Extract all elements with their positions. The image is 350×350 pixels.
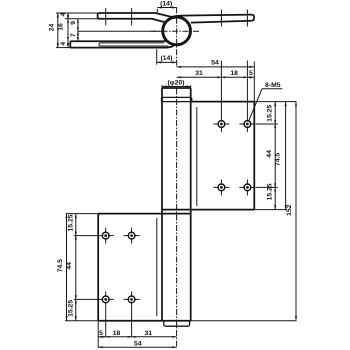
svg-text:(14): (14) <box>160 55 172 62</box>
lower plate outline <box>98 214 191 321</box>
extension line lower plate bottom edge (y=320.8) across <box>65 320 98 322</box>
dimension (14) bottom <box>157 49 177 64</box>
svg-text:5: 5 <box>99 330 103 337</box>
dimension 24 <box>49 13 98 48</box>
dimension 74.5 (right) <box>274 102 286 210</box>
dimension chain 9 / 7 <box>70 19 79 42</box>
barrel top cap ring <box>161 97 191 101</box>
svg-text:24: 24 <box>49 24 56 32</box>
dimension 152 (right) <box>286 102 297 321</box>
svg-text:4: 4 <box>60 13 67 17</box>
dimension 54 (bottom) <box>98 340 176 348</box>
svg-text:31: 31 <box>145 330 153 337</box>
svg-text:7: 7 <box>70 33 77 37</box>
top-left leaf bar outline <box>98 13 172 22</box>
svg-text:5: 5 <box>249 70 253 77</box>
extension line upper hole column x=247.4 <box>246 61 248 117</box>
extension line lower plate left edge (down) <box>97 321 99 348</box>
svg-text:4: 4 <box>60 42 67 46</box>
dimension chain 4 / 16 / 4 <box>57 13 98 48</box>
extension line lower hole row y=235.6 <box>74 235 98 237</box>
extension line plate bottom edge right (y=209.6) <box>254 209 286 211</box>
extension line plate top edge right (y=101.6) <box>254 101 296 103</box>
upper plate inner bend line <box>196 107 198 206</box>
extension line lower hole row y=299.4 <box>74 298 98 300</box>
svg-text:18: 18 <box>230 70 238 77</box>
svg-text:44: 44 <box>266 150 273 158</box>
svg-text:9: 9 <box>70 21 77 25</box>
svg-text:18: 18 <box>113 330 121 337</box>
svg-text:15.25: 15.25 <box>67 300 74 317</box>
barrel vertical centerline <box>176 89 178 348</box>
svg-text:8-M5: 8-M5 <box>265 82 281 89</box>
right flag leaf bar (edge view) <box>172 15 255 23</box>
circle vertical centerline <box>176 7 178 67</box>
dimension chain 5 / 18 / 31 (bottom) <box>98 330 176 338</box>
knuckle circle (top view of barrel) <box>163 17 191 45</box>
dimension (14) top <box>157 1 176 13</box>
svg-text:15.25: 15.25 <box>267 105 274 122</box>
hole centerline tick on top bar (x=105.7) <box>105 8 107 25</box>
svg-text:(14): (14) <box>160 1 172 8</box>
dimension (phi20) <box>162 80 191 89</box>
svg-text:152: 152 <box>286 204 293 216</box>
lower plate inner bend line <box>156 218 158 316</box>
svg-text:15.25: 15.25 <box>266 183 273 200</box>
extension line lower hole column x=131.6 <box>131 307 133 337</box>
dimension 74.5 (left) <box>57 214 67 321</box>
hole centerline tick on right bar (x=247.4) <box>246 10 248 27</box>
dimension 54 (top) <box>177 60 254 68</box>
bottom-left leaf bar outline <box>70 41 174 47</box>
extension line upper plate right edge (up) <box>253 62 255 102</box>
dimension chain 31 / 18 / 5 (top) <box>177 70 254 78</box>
inner mid edge line of top view <box>78 30 163 32</box>
svg-text:54: 54 <box>134 340 142 347</box>
extension line lower plate top edge left (y=213.6) <box>66 213 98 215</box>
dimension chain 15.25 / 44 / 15.25 (left) <box>66 214 77 321</box>
svg-text:74.5: 74.5 <box>274 153 281 166</box>
extension line upper hole column x=221.4 <box>220 61 222 117</box>
upper plate outline <box>162 102 254 210</box>
extension line lower hole column x=105.7 <box>105 307 107 337</box>
dimension chain 15.25 / 44 / 15.25 (right) <box>266 102 276 210</box>
extension line hole row y=187.4 <box>256 186 278 188</box>
barrel bottom cap ring <box>164 321 190 326</box>
barrel bottom edge <box>162 320 191 322</box>
inner slot of bottom-left bar <box>99 43 169 46</box>
barrel outline <box>162 88 191 321</box>
svg-text:16: 16 <box>57 23 64 31</box>
svg-text:44: 44 <box>66 262 73 270</box>
hole centerline tick on right bar (x=221.4) <box>220 10 222 27</box>
extension line hole row y=124 <box>256 123 278 125</box>
label 8-M5 with leader <box>249 82 283 121</box>
svg-text:15.25: 15.25 <box>67 214 74 231</box>
circle horizontal centerline <box>151 30 201 32</box>
svg-text:31: 31 <box>195 70 203 77</box>
hole centerline tick on top bar (x=131.6) <box>131 8 133 25</box>
svg-text:74.5: 74.5 <box>57 259 64 272</box>
svg-text:54: 54 <box>211 60 219 67</box>
svg-text:(φ20): (φ20) <box>168 80 185 87</box>
